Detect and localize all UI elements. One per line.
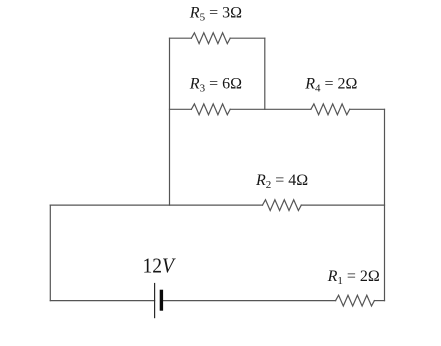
wire right vertical of R5 loop xyxy=(264,38,266,109)
resistor R4 xyxy=(311,104,350,115)
svg-text:R2 = 4Ω: R2 = 4Ω xyxy=(255,172,308,191)
wire top-right segment xyxy=(230,37,265,39)
svg-text:12V: 12V xyxy=(143,253,177,277)
resistor R1 xyxy=(336,295,375,306)
wire bottom-right segment xyxy=(374,300,384,302)
wire R2 row right segment xyxy=(301,204,384,206)
wire right vertical xyxy=(384,109,386,300)
svg-text:R4 = 2Ω: R4 = 2Ω xyxy=(304,76,357,95)
wire middle-center segment (node junction with R5 loop) xyxy=(230,108,311,110)
resistor R3 xyxy=(191,104,230,115)
wire left vertical xyxy=(49,205,51,301)
wire middle-left segment xyxy=(170,108,192,110)
wire top-left segment (node top loop) xyxy=(170,37,192,39)
wire bottom-left segment xyxy=(50,300,154,302)
wire middle-right segment xyxy=(350,108,385,110)
svg-text:R3 = 6Ω: R3 = 6Ω xyxy=(189,75,242,94)
battery V1 long plate xyxy=(154,284,156,318)
wire left vertical of R5/R3 loop xyxy=(169,38,171,205)
wire bottom-middle segment xyxy=(161,300,335,302)
svg-text:R1 = 2Ω: R1 = 2Ω xyxy=(327,268,380,287)
svg-text:R5 = 3Ω: R5 = 3Ω xyxy=(189,5,242,24)
battery V1 short thick plate xyxy=(160,291,163,309)
resistor R5 xyxy=(191,33,230,44)
resistor R2 xyxy=(263,200,302,211)
wire R2 row left segment xyxy=(50,204,262,206)
